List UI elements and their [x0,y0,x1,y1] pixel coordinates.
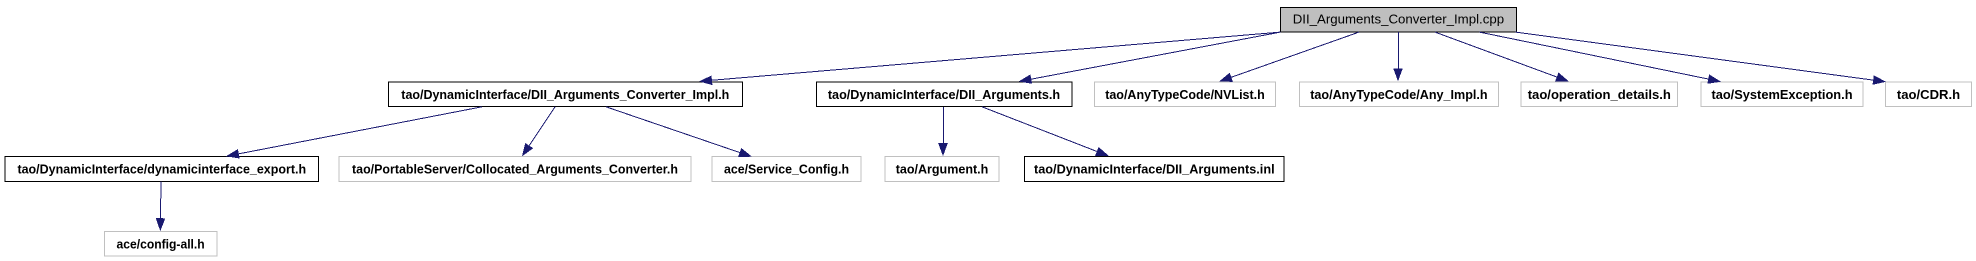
edge DII_Arguments_Converter_Impl.cpp -> tao/CDR.h [1516,32,1886,85]
node tao/operation_details.h [1521,82,1678,107]
edge DII_Arguments_Converter_Impl.cpp -> tao/DynamicInterface/DII_Arguments.h [1019,32,1281,84]
svg-text:tao/DynamicInterface/DII_Argum: tao/DynamicInterface/DII_Arguments.h [828,87,1060,102]
edge tao/DynamicInterface/DII_Arguments_Converter_Impl.h -> tao/DynamicInterface/dynamicinterface_export.h [226,107,482,159]
edge tao/DynamicInterface/dynamicinterface_export.h -> ace/config-all.h [156,181,166,231]
edge tao/DynamicInterface/DII_Arguments.h -> tao/Argument.h [938,107,948,156]
svg-text:tao/PortableServer/Collocated_: tao/PortableServer/Collocated_Arguments_… [352,162,678,177]
svg-text:tao/AnyTypeCode/NVList.h: tao/AnyTypeCode/NVList.h [1105,87,1265,102]
node tao/DynamicInterface/dynamicinterface_export.h [5,157,319,182]
node tao/AnyTypeCode/NVList.h [1095,82,1276,107]
node tao/PortableServer/Collocated_Arguments_Converter.h [339,157,691,182]
node ace/config-all.h [104,232,217,257]
svg-text:tao/DynamicInterface/dynamicin: tao/DynamicInterface/dynamicinterface_ex… [17,162,306,177]
node tao/CDR.h [1885,82,1971,107]
edge DII_Arguments_Converter_Impl.cpp -> tao/DynamicInterface/DII_Arguments_Converter_Impl.h [699,32,1281,85]
svg-text:ace/config-all.h: ace/config-all.h [117,236,205,251]
svg-text:DII_Arguments_Converter_Impl.c: DII_Arguments_Converter_Impl.cpp [1293,12,1504,27]
edge DII_Arguments_Converter_Impl.cpp -> tao/AnyTypeCode/NVList.h [1219,32,1359,82]
edge DII_Arguments_Converter_Impl.cpp -> tao/AnyTypeCode/Any_Impl.h [1393,32,1403,81]
node tao/DynamicInterface/DII_Arguments.inl [1025,157,1284,182]
svg-text:ace/Service_Config.h: ace/Service_Config.h [724,162,849,177]
node DII_Arguments_Converter_Impl.cpp [1281,8,1517,33]
node tao/DynamicInterface/DII_Arguments.h [816,82,1072,107]
svg-text:tao/operation_details.h: tao/operation_details.h [1528,87,1671,102]
svg-text:tao/DynamicInterface/DII_Argum: tao/DynamicInterface/DII_Arguments.inl [1034,162,1275,177]
edge tao/DynamicInterface/DII_Arguments_Converter_Impl.h -> tao/PortableServer/Collocated_Arguments_Converter.h [522,107,555,157]
node tao/Argument.h [885,157,999,182]
edge DII_Arguments_Converter_Impl.cpp -> tao/operation_details.h [1435,32,1569,81]
svg-text:tao/AnyTypeCode/Any_Impl.h: tao/AnyTypeCode/Any_Impl.h [1310,87,1487,102]
node tao/DynamicInterface/DII_Arguments_Converter_Impl.h [388,82,742,107]
svg-text:tao/SystemException.h: tao/SystemException.h [1711,87,1852,102]
edge tao/DynamicInterface/DII_Arguments.h -> tao/DynamicInterface/DII_Arguments.inl [982,107,1109,156]
svg-text:tao/CDR.h: tao/CDR.h [1897,87,1960,102]
svg-text:tao/Argument.h: tao/Argument.h [896,162,989,177]
node tao/SystemException.h [1701,82,1863,107]
edge DII_Arguments_Converter_Impl.cpp -> tao/SystemException.h [1480,32,1722,84]
node tao/AnyTypeCode/Any_Impl.h [1299,82,1498,107]
svg-text:tao/DynamicInterface/DII_Argum: tao/DynamicInterface/DII_Arguments_Conve… [401,87,729,102]
edge tao/DynamicInterface/DII_Arguments_Converter_Impl.h -> ace/Service_Config.h [606,107,752,157]
node ace/Service_Config.h [712,157,861,182]
